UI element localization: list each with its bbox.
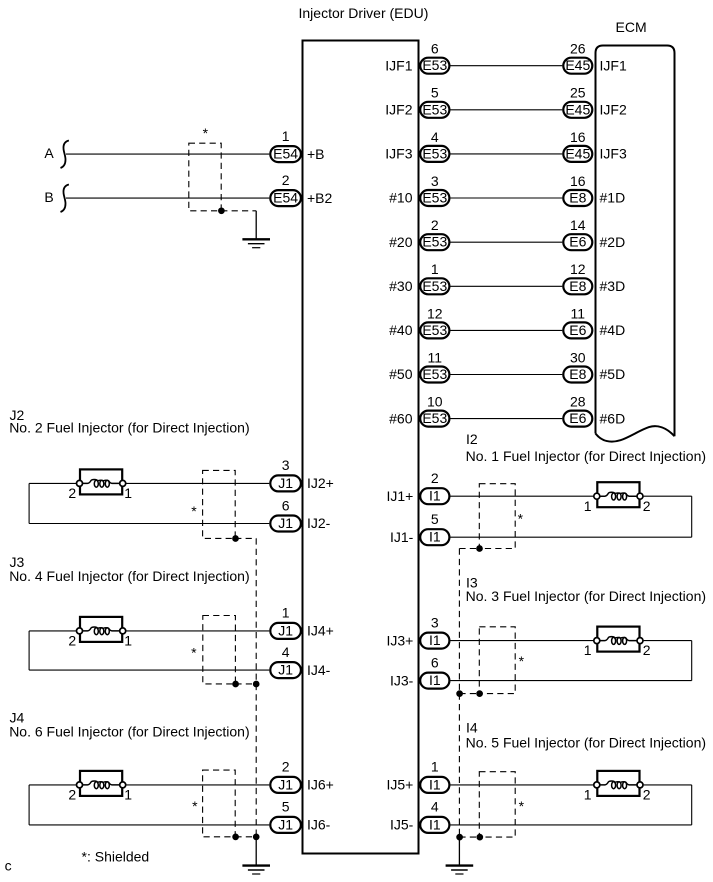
svg-text:E8: E8 [569,278,586,294]
svg-text:2: 2 [431,217,439,233]
svg-text:I1: I1 [429,488,441,504]
svg-text:c: c [5,857,12,873]
svg-text:No. 2 Fuel Injector (for Direc: No. 2 Fuel Injector (for Direct Injectio… [9,420,249,436]
svg-text:1: 1 [124,787,132,803]
svg-text:3: 3 [431,614,439,630]
svg-text:IJF2: IJF2 [600,102,627,118]
svg-text:IJF2: IJF2 [385,102,412,118]
svg-text:E53: E53 [422,278,447,294]
svg-text:*: * [519,653,525,669]
svg-text:#4D: #4D [600,322,626,338]
svg-text:2: 2 [643,787,651,803]
svg-text:J1: J1 [278,622,293,638]
svg-text:1: 1 [431,759,439,775]
svg-text:5: 5 [431,85,439,101]
svg-text:4: 4 [431,129,439,145]
svg-text:E53: E53 [422,366,447,382]
svg-text:E53: E53 [422,322,447,338]
svg-text:11: 11 [571,305,586,321]
svg-text:2: 2 [68,787,76,803]
svg-text:4: 4 [431,799,439,815]
svg-text:*: * [203,125,209,141]
svg-text:28: 28 [570,394,586,410]
svg-text:12: 12 [570,261,586,277]
svg-text:#60: #60 [389,410,413,426]
svg-text:*: * [519,798,525,814]
svg-text:26: 26 [570,41,586,57]
svg-text:E53: E53 [422,234,447,250]
svg-text:2: 2 [643,498,651,514]
svg-text:#1D: #1D [600,190,626,206]
svg-text:E53: E53 [422,190,447,206]
svg-text:#10: #10 [389,190,413,206]
svg-text:1: 1 [124,485,132,501]
svg-text:+B: +B [307,146,325,162]
svg-text:*: * [191,503,197,519]
svg-text:I1: I1 [429,529,441,545]
svg-text:E53: E53 [422,101,447,117]
svg-text:E6: E6 [569,234,586,250]
svg-text:A: A [44,145,54,161]
svg-text:2: 2 [643,642,651,658]
svg-text:#50: #50 [389,366,413,382]
svg-text:16: 16 [570,129,586,145]
svg-text:J1: J1 [278,515,293,531]
svg-text:1: 1 [584,498,592,514]
svg-text:IJ2+: IJ2+ [307,475,334,491]
svg-text:I2: I2 [466,431,478,447]
svg-text:6: 6 [431,41,439,57]
svg-text:IJF3: IJF3 [600,146,627,162]
svg-text:E53: E53 [422,410,447,426]
svg-text:25: 25 [570,85,586,101]
svg-text:#6D: #6D [600,410,626,426]
svg-text:11: 11 [428,349,443,365]
svg-text:IJ4-: IJ4- [307,662,331,678]
svg-text:No. 6 Fuel Injector (for Direc: No. 6 Fuel Injector (for Direct Injectio… [9,724,249,740]
svg-text:IJ3-: IJ3- [390,672,414,688]
svg-text:IJ5+: IJ5+ [386,777,413,793]
svg-text:+B2: +B2 [307,190,333,206]
svg-text:J1: J1 [278,475,293,491]
svg-text:No. 1 Fuel Injector (for Direc: No. 1 Fuel Injector (for Direct Injectio… [466,448,706,464]
svg-text:IJ6-: IJ6- [307,817,331,833]
svg-text:I4: I4 [466,719,478,735]
svg-text:I1: I1 [429,632,441,648]
svg-text:4: 4 [282,644,290,660]
svg-text:#30: #30 [389,278,413,294]
svg-text:6: 6 [431,654,439,670]
svg-text:*: Shielded: *: Shielded [82,849,150,865]
svg-text:E53: E53 [422,57,447,73]
svg-text:IJ1-: IJ1- [390,529,414,545]
svg-text:E54: E54 [273,190,298,206]
svg-text:2: 2 [68,485,76,501]
svg-text:IJ5-: IJ5- [390,817,414,833]
svg-text:I1: I1 [429,776,441,792]
svg-text:14: 14 [570,217,586,233]
svg-text:1: 1 [124,633,132,649]
svg-text:No. 3 Fuel Injector (for Direc: No. 3 Fuel Injector (for Direct Injectio… [466,588,706,604]
svg-text:B: B [44,189,53,205]
svg-text:No. 4 Fuel Injector (for Direc: No. 4 Fuel Injector (for Direct Injectio… [9,568,249,584]
svg-text:No. 5 Fuel Injector (for Direc: No. 5 Fuel Injector (for Direct Injectio… [466,734,706,750]
svg-text:J1: J1 [278,776,293,792]
svg-text:*: * [518,511,524,527]
svg-text:E6: E6 [569,410,586,426]
svg-text:E8: E8 [569,190,586,206]
svg-text:#5D: #5D [600,366,626,382]
svg-text:E54: E54 [273,146,298,162]
svg-text:1: 1 [431,261,439,277]
svg-text:IJF3: IJF3 [385,146,412,162]
svg-text:2: 2 [68,633,76,649]
svg-text:2: 2 [431,470,439,486]
svg-text:1: 1 [584,642,592,658]
svg-text:E45: E45 [565,57,590,73]
svg-text:I1: I1 [429,816,441,832]
svg-text:30: 30 [570,349,586,365]
svg-text:#20: #20 [389,234,413,250]
svg-text:I1: I1 [429,672,441,688]
svg-text:1: 1 [282,605,290,621]
svg-text:IJF1: IJF1 [385,57,412,73]
svg-text:2: 2 [282,759,290,775]
svg-text:J1: J1 [278,816,293,832]
svg-text:#40: #40 [389,322,413,338]
svg-text:ECM: ECM [616,19,647,35]
svg-text:Injector Driver (EDU): Injector Driver (EDU) [299,5,429,21]
svg-text:5: 5 [282,799,290,815]
svg-text:1: 1 [282,128,290,144]
svg-text:2: 2 [282,172,290,188]
svg-text:E53: E53 [422,145,447,161]
svg-text:3: 3 [282,457,290,473]
svg-text:3: 3 [431,173,439,189]
svg-text:12: 12 [427,305,443,321]
svg-text:#3D: #3D [600,278,626,294]
svg-text:6: 6 [282,497,290,513]
svg-text:IJ2-: IJ2- [307,515,331,531]
svg-text:5: 5 [431,511,439,527]
svg-text:16: 16 [570,173,586,189]
svg-text:*: * [191,645,197,661]
svg-text:E6: E6 [569,322,586,338]
svg-text:IJ1+: IJ1+ [386,488,413,504]
svg-text:10: 10 [427,394,443,410]
svg-text:*: * [192,798,198,814]
svg-text:IJ3+: IJ3+ [386,632,413,648]
svg-text:IJ4+: IJ4+ [307,623,334,639]
svg-text:IJF1: IJF1 [600,57,627,73]
svg-text:E45: E45 [565,101,590,117]
svg-text:J1: J1 [278,662,293,678]
svg-text:E45: E45 [565,145,590,161]
svg-text:IJ6+: IJ6+ [307,777,334,793]
svg-text:1: 1 [584,787,592,803]
svg-text:#2D: #2D [600,234,626,250]
svg-text:E8: E8 [569,366,586,382]
